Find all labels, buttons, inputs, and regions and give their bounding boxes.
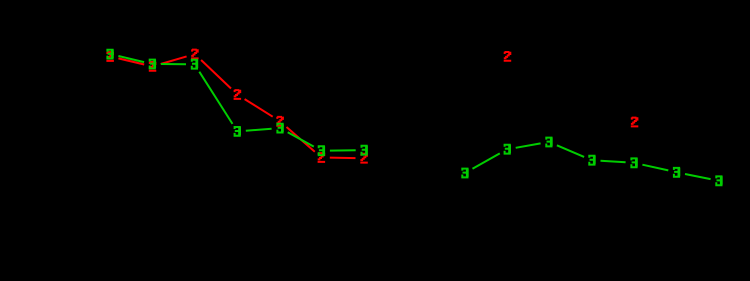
node left-green point 1 label "3" xyxy=(106,49,113,60)
wire left-green segment 5 xyxy=(288,132,314,146)
wire left-red segment 2 xyxy=(161,56,187,64)
node left-red point 4 label "2" xyxy=(234,89,242,100)
wire right-green segment 3 xyxy=(557,145,584,157)
wire left-red segment 1 xyxy=(118,58,144,64)
node right-green point 5 label "3" xyxy=(630,157,637,168)
node left-red point 2 label "2" xyxy=(149,61,157,72)
node right-green point 1 label "3" xyxy=(461,168,468,179)
node left-red point 5 label "2" xyxy=(276,116,284,127)
node right-green point 3 label "3" xyxy=(545,137,552,148)
node left-green point 3 label "3" xyxy=(191,59,198,70)
wire right-green segment 2 xyxy=(516,143,541,147)
wire left-red segment 3 xyxy=(201,60,231,89)
node left-red point 3 label "2" xyxy=(191,49,199,60)
node right-green point 4 label "3" xyxy=(588,155,595,166)
node left-green point 7 label "3" xyxy=(361,145,368,156)
node left-red point 7 label "2" xyxy=(360,153,368,164)
node right-green point 2 label "3" xyxy=(504,144,511,155)
wire right-green segment 4 xyxy=(601,161,626,163)
wire left-green segment 2 xyxy=(161,63,186,65)
wire left-green segment 1 xyxy=(118,56,144,62)
node right-red point 2 label "2" xyxy=(631,117,639,128)
wire left-red segment 5 xyxy=(287,127,315,152)
wire left-red segment 4 xyxy=(245,99,273,117)
wire left-green segment 4 xyxy=(246,129,272,131)
node left-green point 6 label "3" xyxy=(318,145,325,156)
node right-green point 7 label "3" xyxy=(715,175,722,186)
wire left-green segment 6 xyxy=(330,149,356,151)
node left-red point 6 label "2" xyxy=(318,152,326,163)
wire left-red segment 6 xyxy=(330,157,356,160)
wire right-green segment 6 xyxy=(685,174,711,179)
wire left-green segment 3 xyxy=(199,72,232,124)
node left-red point 1 label "2" xyxy=(106,51,114,62)
node right-red point 1 label "2" xyxy=(504,51,512,62)
node right-green point 6 label "3" xyxy=(673,167,680,178)
wire right-green segment 1 xyxy=(473,153,500,168)
node left-green point 4 label "3" xyxy=(234,126,241,137)
node left-green point 2 label "3" xyxy=(149,59,156,70)
node left-green point 5 label "3" xyxy=(276,123,283,134)
wire right-green segment 5 xyxy=(642,165,668,171)
